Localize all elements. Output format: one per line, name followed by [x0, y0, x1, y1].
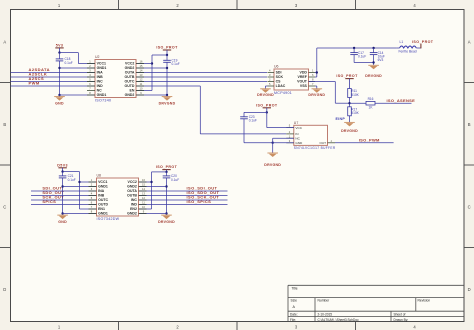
svg-text:EN: EN — [130, 89, 135, 93]
svg-text:C: C — [3, 205, 6, 210]
svg-text:SDI: SDI — [276, 71, 282, 75]
svg-text:SN74LVC1G17 BUFFER: SN74LVC1G17 BUFFER — [294, 146, 336, 150]
svg-text:ISO_PROT: ISO_PROT — [256, 103, 278, 107]
svg-text:VDD: VDD — [300, 71, 308, 75]
svg-text:VCC1: VCC1 — [98, 180, 107, 184]
svg-text:INA: INA — [97, 71, 104, 75]
svg-text:IND: IND — [97, 84, 104, 88]
svg-text:A: A — [468, 40, 471, 45]
svg-text:0.1uF: 0.1uF — [249, 119, 257, 123]
svg-text:ISO7340: ISO7340 — [95, 98, 111, 102]
svg-text:0.1uF: 0.1uF — [68, 178, 76, 182]
svg-text:MCP4901: MCP4901 — [274, 91, 292, 95]
svg-text:ISO_PROT: ISO_PROT — [156, 46, 178, 50]
svg-text:DRVGND: DRVGND — [264, 163, 281, 167]
svg-text:GND2: GND2 — [127, 212, 137, 216]
svg-text:D: D — [468, 287, 471, 292]
svg-text:ISO_SPICS: ISO_SPICS — [187, 199, 212, 204]
svg-text:Title: Title — [292, 286, 298, 290]
svg-text:D: D — [3, 287, 6, 292]
svg-text:D5V3: D5V3 — [57, 163, 68, 167]
svg-text:Size: Size — [291, 299, 298, 303]
svg-text:VCC2: VCC2 — [125, 62, 134, 66]
svg-text:GND2: GND2 — [125, 66, 135, 70]
svg-text:B: B — [468, 122, 471, 127]
svg-text:VSS: VSS — [300, 84, 308, 88]
svg-text:EN1: EN1 — [98, 207, 105, 211]
svg-text:OUTC: OUTC — [98, 198, 108, 202]
svg-text:510K: 510K — [351, 93, 359, 97]
svg-text:INB: INB — [97, 75, 104, 79]
svg-text:2-10-2015: 2-10-2015 — [318, 313, 333, 317]
svg-text:A: A — [3, 40, 6, 45]
svg-text:CS: CS — [276, 80, 282, 84]
svg-text:Drawn By:: Drawn By: — [394, 318, 409, 322]
svg-text:GND1: GND1 — [98, 185, 108, 189]
svg-text:OUTB: OUTB — [124, 75, 134, 79]
svg-text:NC: NC — [97, 89, 103, 93]
svg-text:Ferrite Bead: Ferrite Bead — [399, 49, 417, 53]
svg-text:U2: U2 — [95, 55, 100, 59]
svg-text:LDAC: LDAC — [276, 84, 286, 88]
svg-text:ISO_PROT: ISO_PROT — [156, 165, 178, 169]
svg-text:INA: INA — [98, 189, 105, 193]
svg-text:U7: U7 — [294, 121, 299, 125]
svg-text:SPICS: SPICS — [42, 199, 56, 204]
svg-text:GND1: GND1 — [97, 66, 107, 70]
svg-text:OUTD: OUTD — [98, 203, 108, 207]
svg-text:R16: R16 — [368, 97, 374, 101]
svg-text:INB: INB — [98, 194, 105, 198]
svg-text:GND: GND — [295, 141, 303, 145]
svg-text:ISO_PROT: ISO_PROT — [336, 74, 358, 78]
svg-text:Date:: Date: — [290, 313, 298, 317]
svg-text:GND: GND — [55, 102, 64, 106]
svg-text:0.1uF: 0.1uF — [171, 178, 179, 182]
svg-text:ISO7342DW: ISO7342DW — [97, 217, 120, 221]
svg-text:GND1: GND1 — [97, 93, 107, 97]
svg-text:DRVGND: DRVGND — [341, 129, 358, 133]
svg-text:DRVGND: DRVGND — [158, 220, 175, 224]
svg-text:DRVGND: DRVGND — [365, 74, 382, 78]
svg-text:NC: NC — [295, 136, 300, 140]
svg-text:B: B — [3, 122, 6, 127]
svg-text:EN2: EN2 — [130, 207, 137, 211]
svg-text:U6: U6 — [274, 65, 279, 69]
svg-text:DRVGND: DRVGND — [159, 102, 176, 106]
svg-text:ISO_PWM: ISO_PWM — [359, 137, 380, 142]
svg-text:C:\ALTIUM\..\Sheet3.SchDoc: C:\ALTIUM\..\Sheet3.SchDoc — [318, 318, 360, 322]
svg-text:U8: U8 — [97, 174, 102, 178]
svg-text:OUTC: OUTC — [124, 80, 134, 84]
svg-text:Number: Number — [318, 299, 331, 303]
svg-text:6V3: 6V3 — [378, 58, 384, 62]
svg-text:File:: File: — [290, 318, 296, 322]
svg-text:5V3: 5V3 — [56, 43, 64, 47]
svg-text:VCC1: VCC1 — [97, 62, 106, 66]
svg-text:VCC: VCC — [295, 126, 302, 130]
svg-text:GND: GND — [58, 220, 67, 224]
svg-text:C: C — [468, 205, 471, 210]
svg-text:510K: 510K — [351, 111, 359, 115]
svg-text:DRVGND: DRVGND — [257, 93, 274, 97]
svg-text:0.1uF: 0.1uF — [358, 55, 366, 59]
svg-text:VOUT: VOUT — [297, 80, 308, 84]
svg-text:ISO_PROT: ISO_PROT — [412, 40, 434, 44]
svg-text:OUTB: OUTB — [127, 194, 137, 198]
svg-text:Revision: Revision — [418, 299, 431, 303]
svg-text:OUTA: OUTA — [127, 189, 137, 193]
svg-text:EINP: EINP — [336, 117, 346, 121]
svg-text:ISO_ASENSE: ISO_ASENSE — [387, 98, 416, 103]
svg-text:0.1uF: 0.1uF — [172, 62, 180, 66]
svg-text:DRVGND: DRVGND — [308, 93, 325, 97]
svg-text:GND2: GND2 — [127, 185, 137, 189]
svg-text:OUT: OUT — [319, 141, 326, 145]
svg-text:INC: INC — [97, 80, 104, 84]
svg-text:VREF: VREF — [298, 75, 308, 79]
svg-text:IND: IND — [131, 203, 138, 207]
svg-text:GND1: GND1 — [98, 212, 108, 216]
svg-text:Sheet of: Sheet of — [394, 313, 406, 317]
svg-text:L1: L1 — [400, 40, 404, 44]
svg-text:PWM: PWM — [29, 81, 40, 86]
svg-text:0.1uF: 0.1uF — [65, 61, 73, 65]
svg-text:OUTA: OUTA — [125, 71, 135, 75]
svg-text:INC: INC — [131, 198, 138, 202]
svg-text:OUTD: OUTD — [124, 84, 134, 88]
svg-text:VCC2: VCC2 — [128, 180, 137, 184]
svg-text:GND2: GND2 — [125, 93, 135, 97]
svg-text:SCK: SCK — [276, 75, 284, 79]
